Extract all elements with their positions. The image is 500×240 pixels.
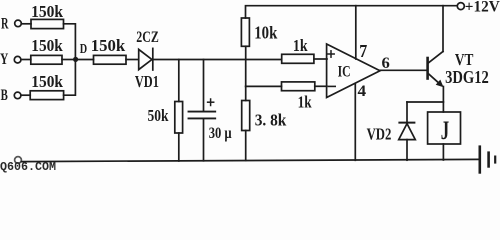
wire R terminal to resistor [21,23,31,25]
resistor R4 150k series [94,55,127,64]
terminal Y [14,56,21,63]
wire capacitor drop [203,60,205,112]
svg-text:3. 8k: 3. 8k [255,111,287,130]
wire B resistor to corner up to node D [64,62,76,95]
ground symbol [480,147,495,173]
wire node D to series resistor [76,59,94,61]
wire 50k drop [178,60,180,102]
resistor R3 150k [30,91,63,100]
wire relay to ground bus [442,144,444,160]
resistor 10k [241,18,249,46]
svg-text:6: 6 [382,55,391,72]
diode VD1 2CZ [139,48,153,70]
label minus input marker [329,85,336,87]
resistor 1k (plus input) [282,54,314,63]
svg-text:150k: 150k [31,2,63,21]
wire series resistor to diode [126,59,139,61]
svg-text:IC: IC [338,64,351,81]
svg-text:150k: 150k [91,36,126,55]
svg-text:50k: 50k [148,106,169,125]
svg-text:150k: 150k [31,72,63,91]
relay J [428,112,461,144]
svg-text:B: B [1,87,8,104]
terminal R [15,20,22,27]
resistor R1 150k [31,19,64,28]
wire pin 7 to rail [355,6,357,59]
wire main node line to opamp plus input [153,59,282,61]
wire B terminal to resistor [21,94,30,96]
wire divider node to 1k minus path [246,85,282,87]
node D junction dot [73,57,78,62]
svg-text:10k: 10k [254,23,277,43]
terminal ground input [15,157,22,164]
resistor R2 150k [31,55,62,64]
svg-text:2CZ: 2CZ [136,29,159,46]
wire +12V power rail [246,6,458,18]
wire divider node down to 3.8k [245,86,247,100]
label plus input marker [328,51,334,57]
svg-text:J: J [441,116,449,145]
wire collector to rail [442,6,444,52]
terminal B [14,92,21,99]
svg-text:1k: 1k [298,93,312,112]
svg-text:150k: 150k [31,36,63,55]
wire 10k down crossing main line to divider node [245,46,247,86]
wire pin 4 to ground bus [354,84,356,161]
svg-text:+12V: +12V [465,0,500,16]
wire VD2 to ground bus [406,140,408,161]
svg-text:4: 4 [358,83,367,100]
resistor 1k (minus input) [282,82,315,91]
svg-text:R: R [1,15,9,32]
wire 1k to opamp minus input [315,85,327,87]
op-amp U1 IC [327,44,380,98]
svg-text:VD2: VD2 [367,125,392,144]
transistor VT 3DG12 [428,52,444,88]
wire link emitter to VD2 [407,101,443,103]
terminal +12V [457,3,464,10]
wire Y terminal to resistor [21,59,31,61]
svg-text:VT: VT [455,50,474,69]
wire capacitor to ground bus [203,118,205,160]
resistor 50k [175,102,183,134]
resistor 3.8k [242,101,250,131]
wire ground bus [22,159,479,161]
svg-text:3DG12: 3DG12 [445,67,489,87]
svg-text:D: D [80,42,87,57]
wire 3.8k to ground bus [245,131,247,161]
wire R resistor to corner down to node D [64,24,76,57]
label plus polarity of capacitor [208,99,214,106]
svg-text:VD1: VD1 [135,72,159,91]
svg-text:Y: Y [0,51,9,68]
diode VD2 [399,123,416,140]
wire opamp output to transistor base [380,69,427,71]
svg-text:1k: 1k [293,36,308,55]
capacitor C1 30u [189,112,216,119]
wire emitter down to relay [442,87,444,113]
svg-text:30 µ: 30 µ [209,125,232,142]
wire 50k to ground bus [178,133,180,161]
wire VD2 top lead [406,102,408,123]
wire Y resistor to node D [62,59,73,61]
wire 1k to opamp plus input [314,58,327,60]
svg-text:Q606.COM: Q606.COM [0,160,56,174]
svg-text:7: 7 [359,41,367,61]
